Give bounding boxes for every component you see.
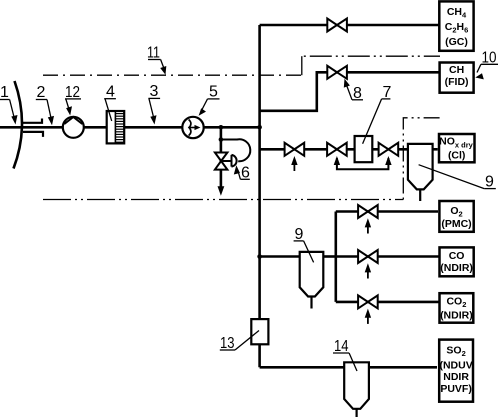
O2/CO/CO2 feed wire: [260, 255, 300, 258]
svg-text:13: 13: [220, 335, 235, 352]
valve V6 (CO): [358, 250, 378, 263]
analyzer box CO2 NDIR: [440, 293, 474, 323]
filter 4: [107, 111, 125, 143]
svg-text:9: 9: [485, 174, 494, 191]
analyzer box O2 PMC: [439, 201, 473, 232]
regulator 6 D-shape: [222, 160, 232, 162]
analyzer box CH FID: [440, 63, 474, 93]
pump 12: [63, 117, 84, 138]
sample probe: [23, 119, 43, 137]
vent arrow: [218, 186, 225, 196]
svg-text:1: 1: [0, 84, 9, 101]
svg-text:(NDIR): (NDIR): [440, 262, 473, 274]
node dot at bus/O2 branch: [257, 254, 262, 259]
node junction dot B: [219, 137, 224, 142]
CH4 branch wire: [260, 24, 439, 27]
valve 8: [327, 66, 347, 79]
svg-text:4: 4: [106, 84, 115, 101]
svg-text:(NDUV: (NDUV: [439, 360, 472, 372]
bypass curve to regulator 6: [221, 139, 250, 161]
NOx branch wire: [260, 148, 408, 151]
CO row wire: [336, 255, 439, 258]
wire vessel 9a to NOx analyzer: [433, 148, 438, 151]
leader 2: [36, 99, 47, 101]
valve 6 (vertical bowtie): [215, 153, 228, 170]
leader 14: [333, 352, 349, 354]
leader 10: [481, 63, 498, 65]
CO2 row wire: [336, 301, 439, 304]
node junction dot A: [219, 125, 224, 130]
svg-text:(GC): (GC): [445, 36, 468, 48]
enclosure dash boundary right vertical: [403, 118, 440, 200]
svg-text:(PMC): (PMC): [441, 218, 471, 230]
trap vessel 9a: [408, 144, 433, 190]
svg-text:PUVF): PUVF): [440, 383, 472, 395]
enclosure 11 dash boundary top-right: [302, 55, 440, 57]
restrictor 13: [251, 319, 268, 344]
leader 11: [148, 59, 161, 61]
bypass loop wire: [337, 158, 389, 169]
analyzer box SO2: [439, 340, 473, 402]
valve V1 (CH4 line): [327, 19, 347, 32]
svg-text:CH: CH: [449, 64, 464, 76]
valve V2 (NOx span): [285, 143, 305, 156]
span gas arrow: [293, 164, 295, 171]
enclosure 11 dash step: [301, 56, 303, 75]
leader 7: [382, 98, 391, 100]
leader 1: [0, 99, 10, 101]
svg-text:(NDIR): (NDIR): [440, 310, 473, 322]
leader lines for labels: [0, 60, 498, 372]
svg-text:10: 10: [482, 50, 497, 67]
trap vessel 9b: [300, 252, 324, 297]
SO2 row wire: [260, 366, 437, 369]
wire vessel 9b to manifold: [323, 255, 336, 258]
svg-text:14: 14: [334, 338, 349, 355]
analyzer box CH4 C2H6 GC: [439, 1, 473, 50]
leader 9b: [294, 240, 304, 242]
analyzer box NOx dry CI: [439, 134, 475, 162]
main bus wire: [258, 25, 261, 367]
svg-text:5: 5: [209, 84, 218, 101]
analyzer box CO NDIR: [440, 247, 474, 276]
svg-text:6: 6: [241, 165, 250, 182]
flow device 5: [182, 117, 203, 138]
O2 row wire: [336, 210, 438, 213]
svg-text:12: 12: [65, 84, 80, 101]
leader 5: [208, 98, 220, 100]
main sample line: [0, 126, 260, 129]
svg-text:2: 2: [37, 84, 46, 101]
FID branch wire: [260, 72, 439, 111]
leader 9a: [484, 188, 496, 190]
leader 12: [65, 98, 81, 100]
valve V5 (O2): [358, 205, 378, 218]
leader 8: [352, 99, 363, 101]
svg-text:NDIR: NDIR: [443, 371, 469, 383]
enclosure 11 dash boundary top-left: [43, 74, 302, 76]
node dot at main line/bus: [257, 125, 262, 130]
leader 3: [148, 97, 160, 99]
leader 4: [104, 98, 116, 100]
enclosure 11 dash boundary bottom: [43, 199, 403, 201]
vent branch wire: [220, 127, 223, 188]
svg-text:(FID): (FID): [445, 76, 469, 88]
leader 13: [220, 349, 235, 351]
svg-text:(Cl): (Cl): [448, 150, 466, 162]
svg-text:CO: CO: [449, 250, 465, 262]
svg-text:11: 11: [147, 45, 160, 62]
valve V7 (CO2): [358, 295, 378, 308]
leader arrowheads: [11, 66, 484, 175]
trap vessel 14: [344, 362, 369, 409]
converter 7: [355, 136, 373, 162]
manifold wire: [334, 212, 337, 302]
svg-text:8: 8: [353, 85, 362, 102]
leader 6: [240, 178, 249, 180]
svg-text:3: 3: [150, 83, 159, 100]
svg-text:7: 7: [383, 84, 392, 101]
duct wall arc: [14, 81, 23, 169]
valve V3 (NOx): [327, 143, 347, 156]
svg-text:9: 9: [295, 226, 304, 243]
valve V4 (NOx): [379, 143, 399, 156]
